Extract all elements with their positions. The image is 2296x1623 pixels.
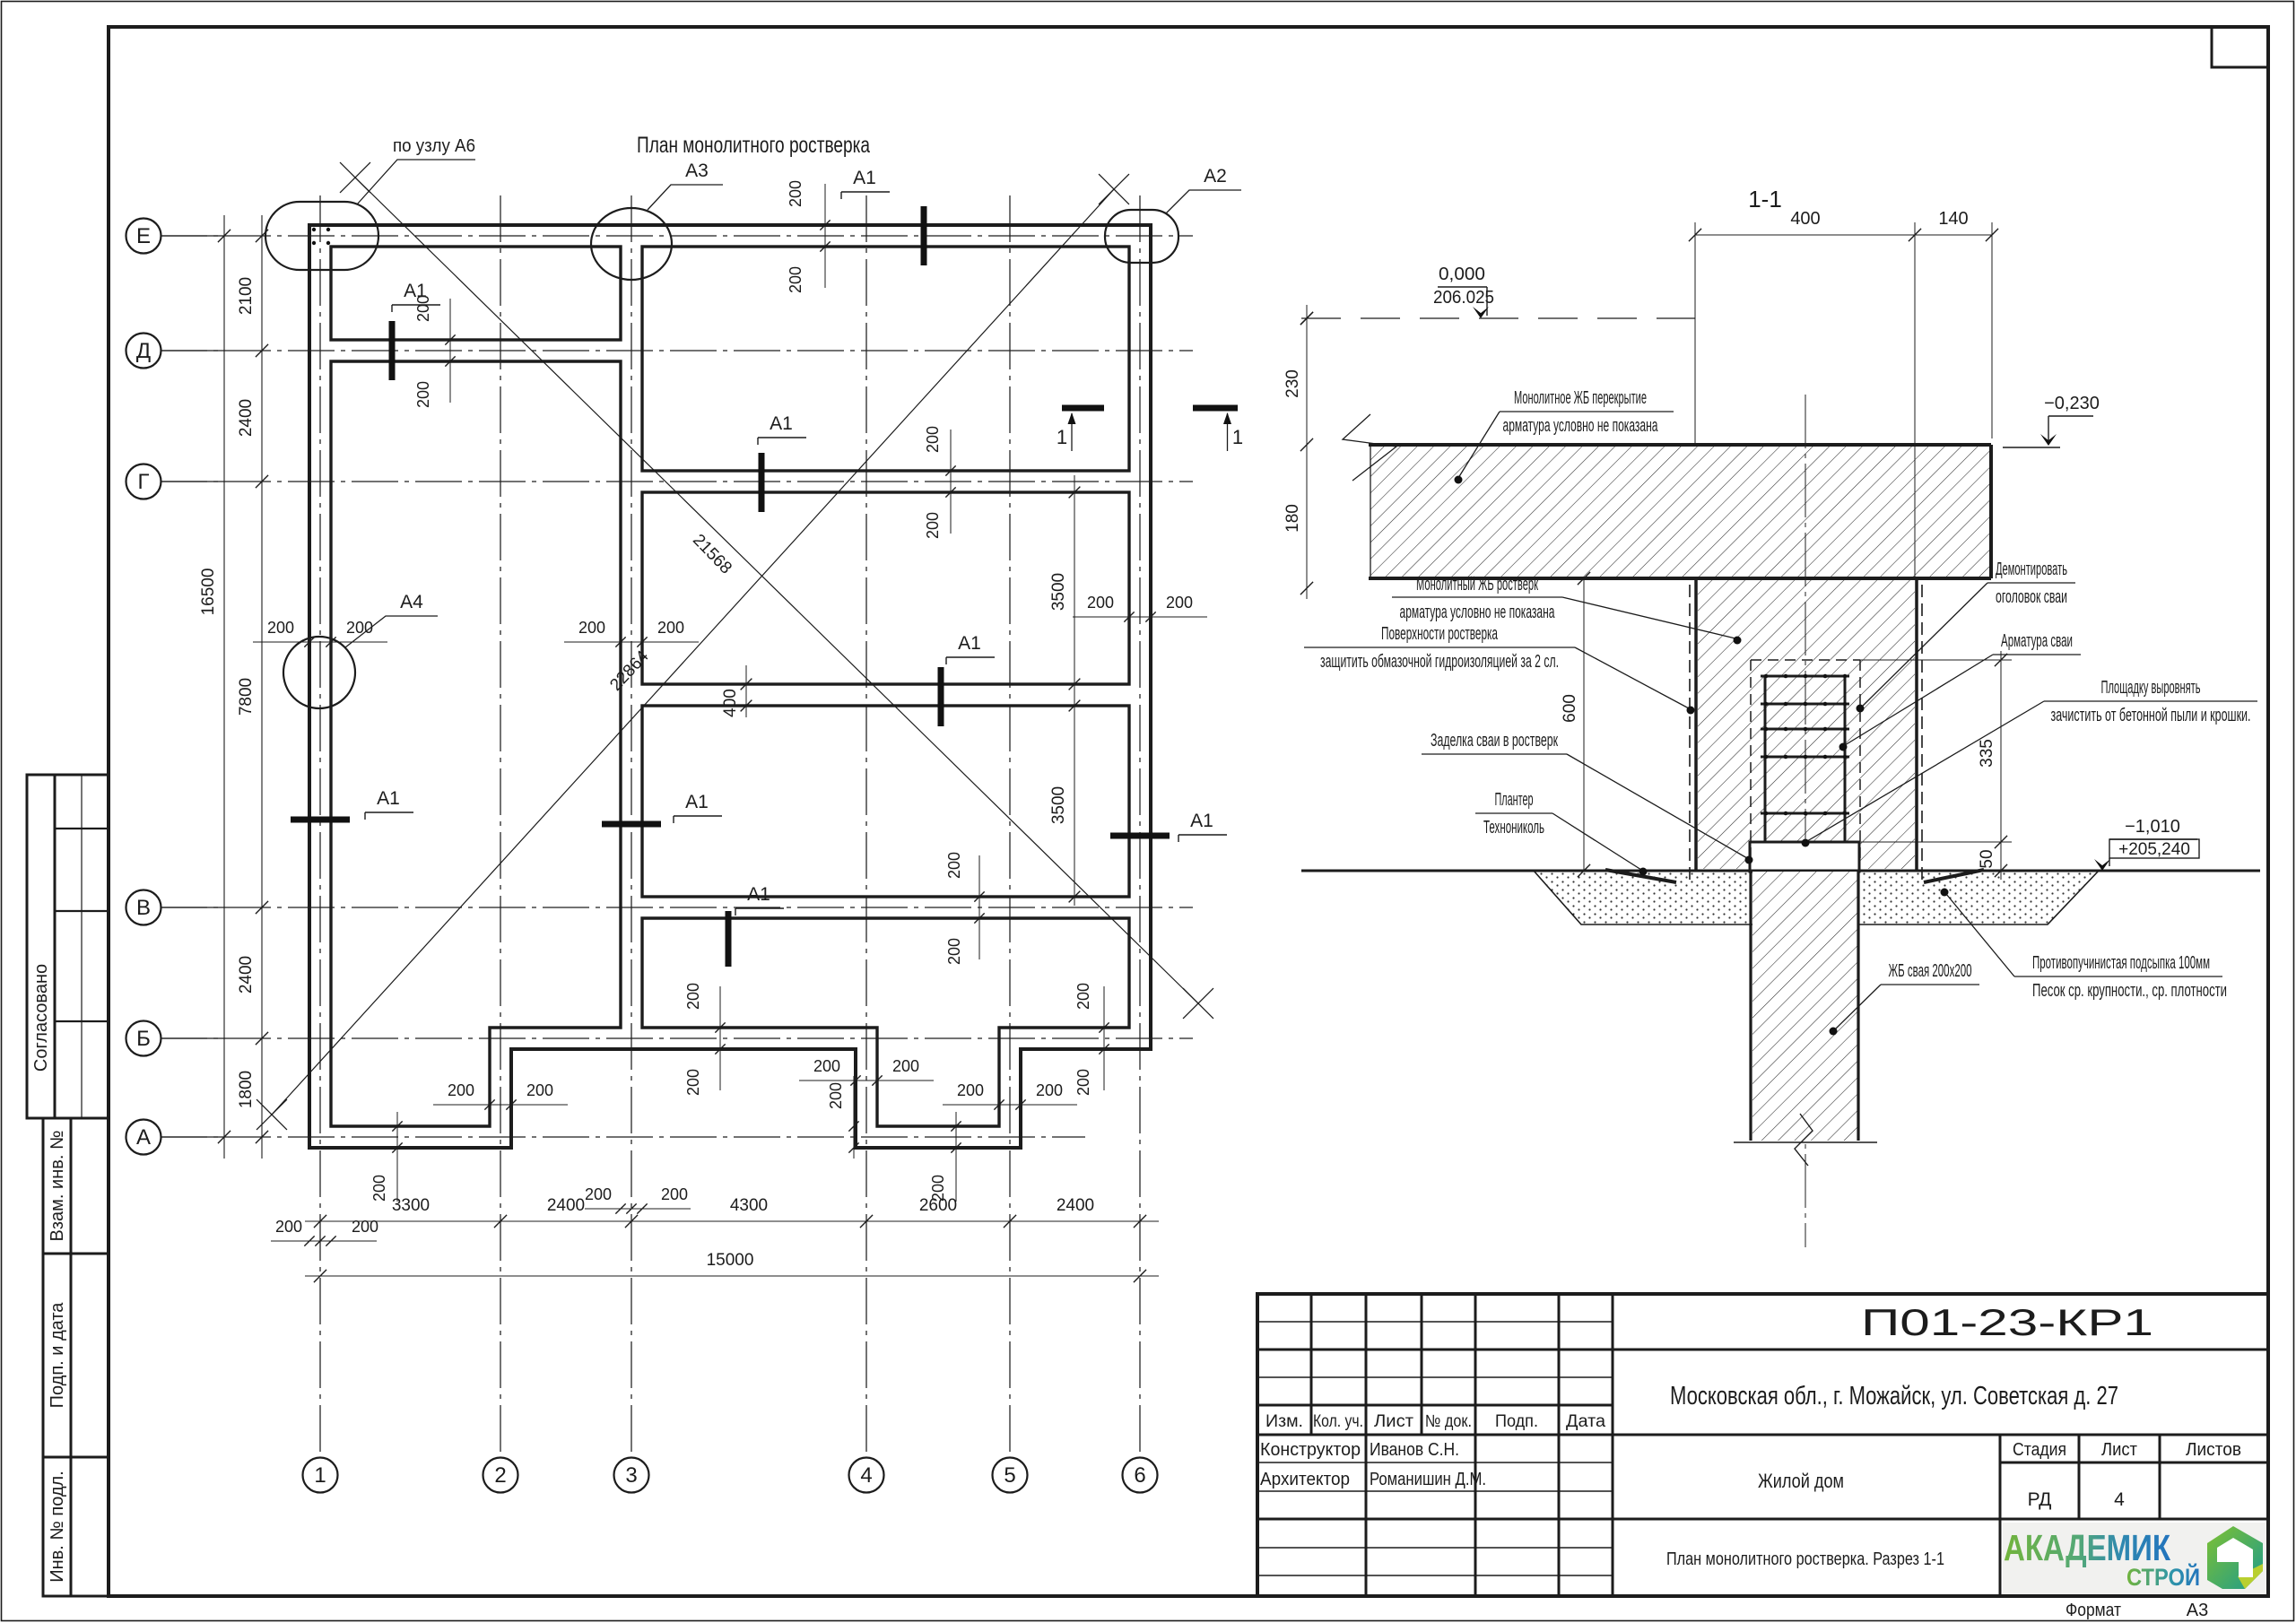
svg-text:0,000: 0,000 (1439, 265, 1485, 284)
svg-text:200: 200 (414, 381, 432, 408)
svg-text:200: 200 (578, 619, 605, 637)
svg-text:200: 200 (661, 1185, 688, 1203)
svg-text:А1: А1 (770, 413, 793, 434)
svg-text:1800: 1800 (237, 1071, 256, 1108)
svg-text:П01-23-КР1: П01-23-КР1 (1861, 1301, 2153, 1343)
svg-text:200: 200 (346, 619, 373, 637)
svg-text:Подп.: Подп. (1495, 1412, 1538, 1431)
svg-text:200: 200 (1087, 594, 1114, 612)
svg-text:А1: А1 (685, 792, 709, 812)
svg-text:1: 1 (314, 1463, 326, 1488)
svg-text:200: 200 (1074, 1069, 1092, 1096)
svg-text:200: 200 (657, 619, 684, 637)
svg-text:Г: Г (138, 470, 150, 494)
svg-text:Взам. инв. №: Взам. инв. № (48, 1131, 67, 1242)
svg-text:200: 200 (370, 1175, 388, 1202)
svg-text:А1: А1 (377, 788, 400, 809)
svg-text:200: 200 (448, 1081, 474, 1099)
svg-text:Заделка сваи в ростверк: Заделка сваи в ростверк (1431, 731, 1558, 751)
svg-text:6: 6 (1134, 1463, 1145, 1488)
svg-text:200: 200 (684, 1069, 702, 1096)
svg-text:Инв. № подл.: Инв. № подл. (48, 1471, 67, 1583)
svg-text:200: 200 (957, 1081, 984, 1099)
svg-text:№ док.: № док. (1425, 1412, 1472, 1431)
svg-text:3500: 3500 (1049, 786, 1068, 824)
svg-text:Е: Е (136, 224, 151, 248)
svg-text:по узлу А6: по узлу А6 (393, 136, 475, 156)
svg-text:600: 600 (1561, 694, 1579, 723)
svg-text:200: 200 (787, 266, 804, 293)
svg-text:3: 3 (625, 1463, 637, 1488)
svg-text:1: 1 (1232, 426, 1243, 448)
svg-text:План монолитного ростверка. Ра: План монолитного ростверка. Разрез 1-1 (1666, 1549, 1944, 1569)
svg-text:7800: 7800 (237, 678, 256, 716)
svg-text:200: 200 (945, 852, 963, 879)
svg-text:РД: РД (2028, 1489, 2052, 1510)
svg-text:2100: 2100 (237, 277, 256, 315)
svg-text:Дата: Дата (1566, 1412, 1605, 1431)
svg-text:Романишин Д.М.: Романишин Д.М. (1370, 1470, 1486, 1489)
svg-text:200: 200 (924, 512, 942, 539)
svg-text:Архитектор: Архитектор (1260, 1470, 1350, 1489)
svg-text:1: 1 (1057, 426, 1067, 448)
svg-text:зачистить от бетонной пыли и к: зачистить от бетонной пыли и крошки. (2051, 706, 2251, 725)
svg-text:Монолитный ЖБ ростверк: Монолитный ЖБ ростверк (1416, 575, 1538, 595)
svg-text:Изм.: Изм. (1265, 1412, 1303, 1431)
svg-text:200: 200 (352, 1218, 378, 1236)
svg-text:Лист: Лист (1374, 1412, 1413, 1431)
svg-text:оголовок сваи: оголовок сваи (1996, 587, 2067, 607)
svg-text:Песок ср. крупности., ср. плот: Песок ср. крупности., ср. плотности (2032, 981, 2227, 1001)
svg-text:Плантер: Плантер (1495, 790, 1534, 810)
svg-text:335: 335 (1978, 739, 1996, 768)
svg-text:4: 4 (2114, 1489, 2125, 1510)
svg-text:200: 200 (827, 1082, 845, 1109)
svg-text:180: 180 (1283, 504, 1302, 533)
svg-text:ЖБ свая 200х200: ЖБ свая 200х200 (1889, 961, 1972, 981)
svg-text:400: 400 (721, 689, 740, 717)
svg-text:Технониколь: Технониколь (1483, 818, 1544, 838)
svg-text:Кол. уч.: Кол. уч. (1313, 1412, 1363, 1431)
svg-text:АКАДЕМИК: АКАДЕМИК (2004, 1527, 2171, 1568)
svg-text:А4: А4 (400, 592, 423, 612)
svg-text:140: 140 (1938, 209, 1968, 229)
svg-text:2400: 2400 (547, 1196, 585, 1215)
svg-text:200: 200 (929, 1175, 947, 1202)
svg-text:А2: А2 (1204, 166, 1227, 187)
svg-text:Формат: Формат (2066, 1601, 2121, 1620)
svg-text:200: 200 (1036, 1081, 1063, 1099)
svg-text:200: 200 (585, 1185, 612, 1203)
svg-text:Жилой дом: Жилой дом (1758, 1470, 1844, 1492)
svg-text:План монолитного ростверка: План монолитного ростверка (637, 133, 870, 158)
svg-text:А1: А1 (747, 884, 770, 905)
svg-text:А3: А3 (2187, 1601, 2208, 1620)
svg-text:Д: Д (136, 339, 151, 363)
svg-text:200: 200 (787, 180, 804, 207)
svg-text:арматура условно не показана: арматура условно не показана (1400, 603, 1556, 622)
svg-text:Монолитное ЖБ перекрытие: Монолитное ЖБ перекрытие (1514, 388, 1647, 408)
svg-text:200: 200 (1074, 983, 1092, 1010)
svg-text:5: 5 (1004, 1463, 1015, 1488)
svg-text:Лист: Лист (2101, 1440, 2137, 1460)
svg-text:+205,240: +205,240 (2118, 840, 2190, 859)
svg-text:200: 200 (267, 619, 294, 637)
svg-text:206.025: 206.025 (1433, 288, 1494, 308)
svg-text:Стадия: Стадия (2013, 1440, 2066, 1460)
svg-text:2: 2 (494, 1463, 506, 1488)
svg-text:Противопучинистая подсыпка 100: Противопучинистая подсыпка 100мм (2032, 953, 2210, 973)
svg-text:В: В (136, 896, 151, 920)
svg-text:Конструктор: Конструктор (1260, 1440, 1361, 1460)
svg-text:400: 400 (1790, 209, 1820, 229)
svg-text:Поверхности ростверка: Поверхности ростверка (1381, 624, 1499, 644)
svg-text:200: 200 (945, 938, 963, 965)
svg-text:арматура условно не показана: арматура условно не показана (1503, 416, 1659, 436)
svg-text:−0,230: −0,230 (2044, 394, 2100, 413)
svg-text:2400: 2400 (237, 399, 256, 437)
svg-text:200: 200 (924, 426, 942, 453)
svg-text:200: 200 (813, 1057, 840, 1075)
svg-text:15000: 15000 (707, 1251, 754, 1270)
svg-text:Площадку выровнять: Площадку выровнять (2101, 678, 2201, 698)
svg-text:Иванов С.Н.: Иванов С.Н. (1370, 1440, 1459, 1460)
svg-text:Арматура сваи: Арматура сваи (2001, 631, 2073, 651)
svg-text:А3: А3 (685, 161, 709, 181)
svg-text:50: 50 (1978, 849, 1996, 868)
svg-text:Листов: Листов (2186, 1440, 2241, 1460)
svg-text:А1: А1 (958, 633, 981, 654)
svg-text:1-1: 1-1 (1748, 186, 1782, 213)
svg-text:200: 200 (892, 1057, 919, 1075)
svg-text:Демонтировать: Демонтировать (1996, 560, 2067, 579)
svg-text:А1: А1 (853, 168, 876, 188)
svg-text:16500: 16500 (199, 568, 218, 616)
svg-text:4: 4 (860, 1463, 872, 1488)
svg-text:Подп. и дата: Подп. и дата (48, 1302, 67, 1409)
svg-text:200: 200 (526, 1081, 553, 1099)
svg-text:Б: Б (136, 1027, 151, 1051)
svg-text:200: 200 (684, 983, 702, 1010)
svg-text:200: 200 (275, 1218, 302, 1236)
svg-text:А1: А1 (1190, 811, 1213, 831)
svg-text:200: 200 (1166, 594, 1193, 612)
svg-text:защитить обмазочной гидроизоля: защитить обмазочной гидроизоляцией за 2 … (1320, 652, 1559, 672)
svg-text:Согласовано: Согласовано (31, 964, 51, 1072)
svg-text:230: 230 (1283, 369, 1302, 398)
svg-text:А: А (136, 1125, 151, 1150)
svg-text:2400: 2400 (237, 956, 256, 994)
svg-text:Московская обл., г. Можайск, у: Московская обл., г. Можайск, ул. Советск… (1670, 1382, 2118, 1410)
svg-text:4300: 4300 (730, 1196, 768, 1215)
svg-text:2400: 2400 (1057, 1196, 1094, 1215)
svg-text:−1,010: −1,010 (2125, 817, 2180, 837)
svg-text:СТРОЙ: СТРОЙ (2126, 1563, 2200, 1591)
svg-text:А1: А1 (404, 281, 427, 301)
svg-text:3500: 3500 (1049, 573, 1068, 611)
